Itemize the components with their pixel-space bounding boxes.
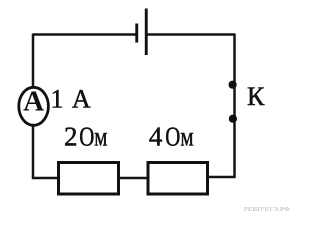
svg-text:Ом: Ом (79, 122, 107, 152)
wire left lower (32, 126, 35, 180)
wire top-left segment (33, 33, 136, 36)
battery long plate (145, 9, 148, 56)
svg-text:К: К (247, 82, 265, 111)
wire between resistors (119, 177, 148, 180)
battery GB1 (135, 9, 147, 56)
resistor R1 2 Om (59, 163, 119, 195)
svg-text:А: А (23, 86, 44, 118)
battery short plate (135, 24, 138, 43)
switch K lower contact dot (229, 115, 237, 123)
svg-text:2: 2 (64, 122, 78, 152)
svg-text:А: А (72, 85, 91, 114)
svg-text:4: 4 (149, 122, 163, 152)
ammeter PA1 (19, 87, 49, 125)
wire left upper (32, 34, 35, 88)
wire bottom-left segment (32, 177, 58, 180)
wire top-right segment (147, 33, 236, 36)
svg-text:РЕШУЕГЭ.РФ: РЕШУЕГЭ.РФ (244, 206, 290, 213)
resistor R2 4 Om (148, 163, 208, 195)
svg-text:1: 1 (51, 85, 64, 114)
wire bottom-right segment (207, 176, 236, 179)
switch K upper contact dot (229, 81, 237, 89)
svg-text:Ом: Ом (165, 122, 193, 152)
wire right (233, 34, 236, 179)
